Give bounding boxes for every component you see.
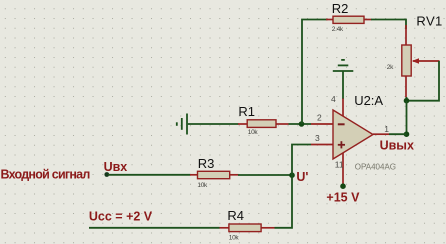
wire ground to R1 (188, 123, 239, 125)
wire Uвх to R3 (108, 174, 191, 176)
svg-text:10k: 10k (197, 182, 208, 189)
svg-text:+15 V: +15 V (326, 191, 360, 205)
wire RV1 bottom to junction (406, 97, 408, 101)
wire U' vertical to pin3 and to R4 (275, 145, 312, 228)
wire R2 to RV1 (371, 20, 406, 30)
svg-text:R1: R1 (238, 104, 255, 119)
wire junction to output node (406, 101, 408, 135)
svg-text:RV1: RV1 (416, 13, 442, 28)
wire RV1 wiper loop (408, 61, 439, 101)
svg-text:10k: 10k (248, 129, 259, 136)
wire R1 to inverting node (289, 123, 312, 125)
svg-text:3: 3 (315, 133, 320, 143)
svg-text:R3: R3 (198, 156, 215, 171)
svg-text:U': U' (296, 170, 308, 184)
ground (left of R1) (177, 114, 187, 135)
node output (404, 131, 410, 137)
svg-text:1: 1 (384, 124, 389, 134)
wire output node to op-amp (389, 133, 407, 135)
svg-text:2k: 2k (387, 64, 394, 71)
svg-text:R2: R2 (332, 1, 349, 16)
resistor R2 (326, 1, 372, 33)
wire R3 to node U' (238, 174, 290, 176)
svg-text:2: 2 (317, 113, 322, 123)
wire ground to op-amp V+ (342, 71, 344, 99)
wire feedback vertical (302, 20, 328, 125)
input terminal (104, 172, 109, 177)
+15 V power terminal (340, 183, 346, 189)
svg-text:Uвх: Uвх (104, 160, 128, 174)
resistor R3 (190, 156, 239, 189)
svg-text:U2:A: U2:A (354, 93, 383, 108)
node U' (289, 172, 295, 178)
wire Ucc to R4 (89, 227, 220, 229)
svg-text:Ucc = +2 V: Ucc = +2 V (89, 210, 153, 224)
op-amp U2:A (311, 93, 396, 185)
node inverting input junction (299, 121, 305, 127)
svg-text:Uвых: Uвых (380, 138, 414, 152)
ground (above op-amp) (333, 60, 354, 71)
svg-text:4: 4 (331, 94, 336, 104)
svg-text:R4: R4 (227, 208, 244, 223)
potentiometer RV1 (387, 13, 443, 97)
resistor R1 (238, 104, 289, 136)
svg-text:2.4k: 2.4k (332, 26, 344, 33)
svg-text:Входной сигнал: Входной сигнал (1, 167, 91, 181)
svg-text:11: 11 (335, 159, 344, 169)
svg-text:10k: 10k (229, 234, 240, 241)
node RV1 bottom junction (404, 98, 410, 104)
svg-text:OPA404AG: OPA404AG (355, 163, 396, 172)
resistor R4 (219, 208, 275, 241)
